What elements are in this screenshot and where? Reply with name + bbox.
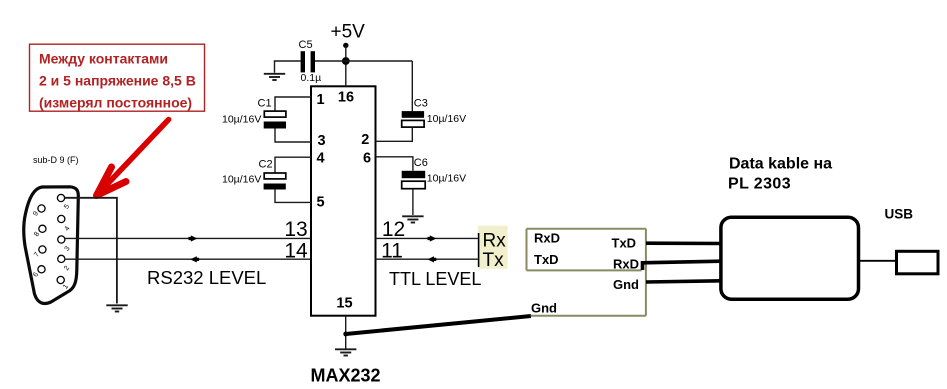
Rx Tx box left bar: [478, 233, 480, 267]
DB9 pin 7: [39, 246, 46, 253]
DB9 pin 2: [58, 255, 65, 262]
svg-text:2: 2: [63, 265, 71, 272]
svg-text:10µ/16V: 10µ/16V: [427, 113, 466, 125]
svg-text:Tx: Tx: [483, 250, 505, 271]
wire C5 to ground: [275, 61, 301, 73]
ground wire from data cable Gnd (diagonal): [346, 316, 531, 334]
svg-text:MAX232: MAX232: [311, 366, 381, 386]
data cable connector box left edge: [526, 229, 528, 271]
svg-text:C2: C2: [259, 159, 273, 171]
DB9 pin 3: [58, 236, 65, 243]
svg-text:C3: C3: [414, 98, 428, 110]
svg-text:16: 16: [338, 90, 354, 106]
junction dot on +5V rail: [342, 57, 350, 65]
svg-text:10µ/16V: 10µ/16V: [222, 114, 261, 126]
wire PL2303 to USB plug: [859, 260, 898, 262]
svg-text:10µ/16V: 10µ/16V: [222, 173, 261, 185]
+5V terminal dot: [343, 43, 348, 48]
DB9 connector outline: [24, 187, 79, 304]
svg-text:Между контактами: Между контактами: [39, 51, 168, 67]
svg-text:TTL LEVEL: TTL LEVEL: [389, 269, 481, 289]
svg-text:TxD: TxD: [534, 252, 559, 267]
capacitor C5 plate left: [301, 51, 305, 72]
wire DB9 pin5 to ground: [65, 198, 117, 304]
svg-text:Rx: Rx: [483, 230, 507, 251]
svg-text:sub-D 9 (F): sub-D 9 (F): [33, 155, 79, 165]
wire +5V rail down to C3: [411, 61, 413, 111]
svg-text:3: 3: [64, 245, 72, 252]
svg-text:RS232 LEVEL: RS232 LEVEL: [147, 267, 266, 288]
svg-text:5: 5: [316, 195, 324, 211]
svg-text:4: 4: [316, 151, 324, 167]
+5V rail horizontal wire: [315, 60, 412, 62]
DB9 pin 1: [57, 276, 64, 283]
wire C3 bottom to IC pin2: [376, 127, 413, 141]
USB plug: [897, 251, 939, 273]
wire C6 bottom to ground: [412, 189, 414, 215]
capacitor C2 plate top: [264, 173, 286, 179]
ground symbol near DB9: [106, 305, 127, 311]
Rx Tx highlight box: [478, 226, 508, 269]
thick wire RxD to PL2303: [643, 261, 722, 270]
svg-text:5: 5: [63, 203, 71, 210]
svg-text:4: 4: [64, 225, 72, 232]
svg-text:Gnd: Gnd: [613, 277, 639, 292]
capacitor C5 plate right: [311, 51, 315, 72]
svg-text:USB: USB: [885, 207, 914, 222]
PL2303 adapter body: [721, 217, 859, 299]
DB9 pin 5: [57, 194, 64, 201]
svg-text:C6: C6: [414, 157, 428, 169]
svg-text:C1: C1: [258, 98, 272, 110]
wire IC pin6 to C6 top: [376, 157, 413, 171]
svg-text:15: 15: [336, 296, 352, 312]
svg-text:1: 1: [316, 92, 324, 108]
svg-text:C5: C5: [299, 39, 313, 51]
data cable connector box bottom edge: [531, 315, 646, 317]
wire IC pin15 down: [345, 316, 347, 349]
svg-text:6: 6: [363, 151, 371, 167]
svg-text:2: 2: [361, 132, 369, 148]
thick wire TxD to PL2303: [646, 241, 721, 245]
svg-text:13: 13: [284, 218, 307, 241]
wire IC pin12 to Rx: [376, 237, 479, 239]
wire C2 bottom to IC pin5: [275, 190, 311, 203]
svg-text:0.1µ: 0.1µ: [301, 72, 322, 84]
ground symbol near C6: [402, 216, 423, 222]
svg-text:Gnd: Gnd: [531, 300, 557, 315]
red arrow: [97, 120, 169, 196]
svg-text:TxD: TxD: [612, 236, 637, 251]
arrowhead right on TTL wire: [428, 235, 437, 241]
wire C1 top to IC pin1: [275, 97, 311, 111]
capacitor C1 plate top: [264, 111, 286, 117]
data cable connector box right edge: [645, 229, 647, 316]
DB9 pin 6: [38, 266, 45, 273]
DB9 pin 4: [58, 215, 65, 222]
arrowhead left on RS232 wire: [190, 256, 199, 262]
arrowhead right on RS232 wire: [189, 235, 198, 241]
capacitor C1 plate bottom: [264, 122, 286, 129]
capacitor C3 plate top: [402, 111, 424, 118]
svg-text:10µ/16V: 10µ/16V: [427, 173, 466, 185]
svg-text:RxD: RxD: [613, 257, 639, 272]
svg-text:Data kable на: Data kable на: [729, 155, 832, 172]
ground symbol below IC pin15: [335, 349, 356, 355]
thick wire Gnd to PL2303: [646, 281, 721, 282]
ground symbol near C5: [264, 74, 285, 80]
svg-text:RxD: RxD: [534, 230, 560, 245]
annotation box border: [30, 44, 205, 111]
svg-text:2 и 5 напряжение 8,5 В: 2 и 5 напряжение 8,5 В: [39, 73, 196, 89]
wire IC pin11 to Tx: [376, 258, 479, 260]
svg-text:+5V: +5V: [331, 22, 366, 43]
capacitor C3 plate bottom: [402, 120, 424, 127]
capacitor C6 plate bottom: [402, 181, 426, 189]
svg-text:14: 14: [284, 239, 308, 262]
wire DB9 pin3 to IC pin13: [65, 237, 311, 239]
data cable connector box middle edge: [527, 269, 642, 271]
svg-text:3: 3: [317, 133, 325, 149]
junction dot pin15: [343, 332, 348, 337]
capacitor C2 plate bottom: [264, 184, 286, 190]
wire DB9 pin2 to IC pin14: [65, 258, 311, 260]
svg-text:PL 2303: PL 2303: [728, 176, 791, 193]
arrowhead left on TTL wire: [427, 256, 436, 262]
capacitor C6 plate top: [402, 171, 426, 178]
wire C1 bottom to IC pin3: [275, 129, 311, 143]
IC MAX232 body: [311, 86, 376, 315]
svg-text:(измерял постоянное): (измерял постоянное): [39, 95, 192, 111]
DB9 pin 9: [38, 205, 45, 212]
DB9 pin 8: [39, 225, 46, 232]
wire +5V down to IC pin16: [345, 45, 347, 86]
data cable connector box top edge: [527, 228, 646, 230]
wire C2 top to IC pin4: [275, 157, 311, 173]
